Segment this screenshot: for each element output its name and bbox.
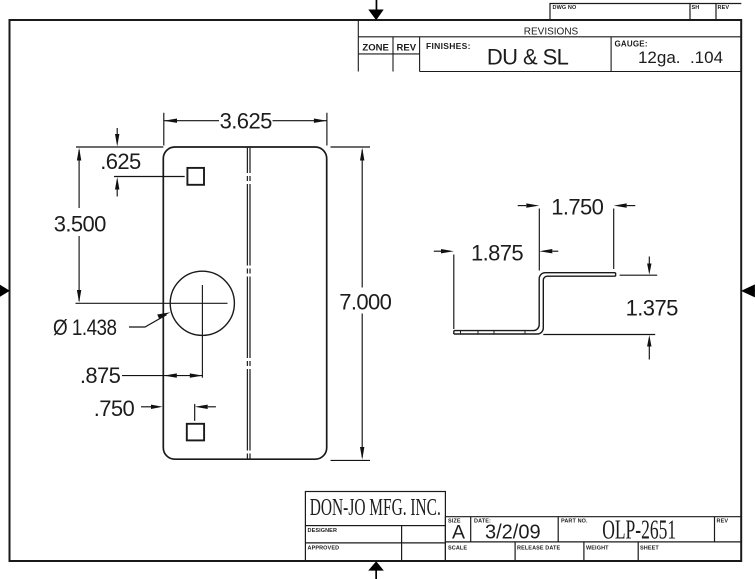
svg-text:SCALE: SCALE <box>448 546 467 552</box>
svg-text:PART NO.: PART NO. <box>561 519 588 525</box>
svg-text:1.875: 1.875 <box>471 240 523 265</box>
svg-text:DON-JO MFG. INC.: DON-JO MFG. INC. <box>310 494 441 521</box>
svg-text:ZONE: ZONE <box>362 43 388 54</box>
svg-text:DWG NO: DWG NO <box>553 5 577 11</box>
svg-text:APPROVED: APPROVED <box>308 546 340 552</box>
svg-text:1.375: 1.375 <box>626 296 678 321</box>
svg-text:A: A <box>452 522 465 544</box>
svg-text:SH: SH <box>692 5 700 11</box>
svg-text:Ø 1.438: Ø 1.438 <box>53 315 117 340</box>
svg-text:REV: REV <box>397 43 417 54</box>
svg-text:DU & SL: DU & SL <box>487 45 569 70</box>
svg-text:REV: REV <box>718 5 730 11</box>
svg-text:RELEASE DATE: RELEASE DATE <box>517 546 561 552</box>
svg-text:REV: REV <box>717 519 729 525</box>
svg-text:.625: .625 <box>100 149 141 174</box>
svg-text:WEIGHT: WEIGHT <box>586 546 609 552</box>
svg-text:DESIGNER: DESIGNER <box>308 528 338 534</box>
svg-text:OLP-2651: OLP-2651 <box>602 514 676 544</box>
svg-text:.875: .875 <box>80 363 121 388</box>
svg-text:3.500: 3.500 <box>54 212 106 237</box>
svg-text:FINISHES:: FINISHES: <box>426 41 471 51</box>
svg-text:7.000: 7.000 <box>339 289 391 314</box>
svg-text:SHEET: SHEET <box>640 546 659 552</box>
svg-text:12ga. .104: 12ga. .104 <box>638 48 723 67</box>
svg-text:REVISIONS: REVISIONS <box>524 27 579 38</box>
svg-text:.750: .750 <box>94 396 135 421</box>
svg-text:3.625: 3.625 <box>220 108 272 133</box>
svg-text:1.750: 1.750 <box>551 195 603 220</box>
svg-text:3/2/09: 3/2/09 <box>485 521 541 543</box>
